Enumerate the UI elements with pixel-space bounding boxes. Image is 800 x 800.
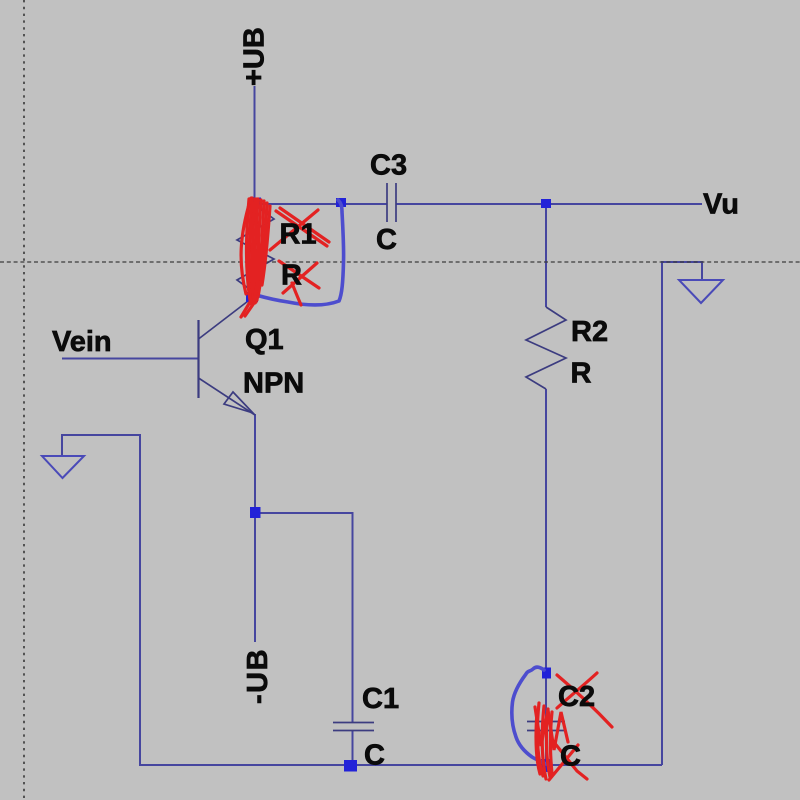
- svg-text:R: R: [571, 358, 592, 390]
- svg-text:C: C: [364, 740, 385, 772]
- svg-text:-UB: -UB: [242, 648, 274, 704]
- svg-text:+UB: +UB: [239, 27, 271, 86]
- svg-text:R1: R1: [280, 219, 317, 251]
- svg-text:C3: C3: [370, 150, 407, 182]
- svg-text:C: C: [560, 741, 581, 773]
- svg-text:NPN: NPN: [243, 368, 304, 400]
- svg-text:Q1: Q1: [245, 324, 284, 356]
- svg-text:Vein: Vein: [52, 326, 112, 358]
- svg-text:C: C: [376, 224, 397, 256]
- svg-text:R2: R2: [571, 316, 608, 348]
- svg-text:Vu: Vu: [703, 189, 739, 221]
- svg-text:C1: C1: [362, 683, 399, 715]
- svg-text:C2: C2: [558, 681, 595, 713]
- svg-text:R: R: [281, 260, 302, 292]
